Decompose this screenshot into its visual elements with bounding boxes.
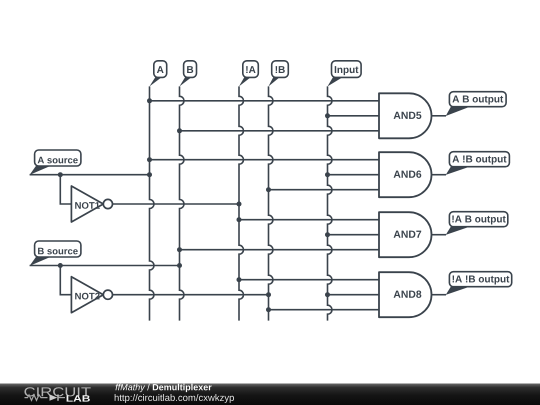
wire !B bus vertical [269,86,274,320]
wire A bus vertical [150,86,155,320]
node junction A/AND6 [147,157,152,162]
node junction !B/AND6 [266,187,271,192]
node junction B/AND5 [177,128,182,133]
node flag A source [30,150,81,175]
node junction !A/AND7 [237,217,242,222]
node junction B/B-source [177,263,182,268]
node junction NOT2 input tap [58,263,63,268]
wire Input to AND8 middle input [328,294,380,296]
logo diode symbol [50,394,66,400]
node junction B/AND7 [177,247,182,252]
node flag !B [269,61,289,87]
and-gate AND8 [379,272,432,317]
wire B bus vertical [180,86,185,320]
node junction !B/AND8 [266,307,271,312]
logo CIRCUIT text [24,387,90,396]
node junction NOT1 input tap [58,172,63,177]
node junction Input/AND6 [325,172,330,177]
wire !A bus vertical [239,86,244,320]
wire NOT1 input branch [60,175,71,204]
wire AND8 output [432,294,447,296]
wire AND6 output [432,174,447,176]
wire A source flag to A bus [30,174,150,176]
logo resistor symbol [25,395,48,401]
node flag A B output [446,92,506,116]
node flag A !B output [446,152,510,175]
wire !A to AND7 top input [239,219,379,221]
wire B to AND7 bottom input [180,249,380,251]
footer url text [115,394,234,403]
wire B source flag to B bus [30,265,180,267]
node flag !A [239,61,258,87]
logo LAB text [67,395,90,401]
footer title text [116,384,146,392]
wire NOT2 input branch [60,266,71,295]
node junction !A/NOT1 [237,202,242,207]
node junction !A/AND8 [237,277,242,282]
wire AND7 output [432,234,447,236]
node flag B [180,61,197,87]
wire Input to AND5 middle input [328,115,380,117]
wire NOT1 output to !A bus [113,203,239,205]
node junction Input/AND8 [325,292,330,297]
node junction Input/AND5 [325,113,330,118]
wire B to AND5 bottom input [180,130,380,132]
footer bar [0,384,540,405]
node junction A/A-source [147,172,152,177]
node junction A/AND5 [147,98,152,103]
node flag B source [30,241,81,266]
node junction Input/AND7 [325,232,330,237]
wire Input bus vertical [328,86,333,320]
node junction !B/NOT2 [266,292,271,297]
wire A to AND6 top input [150,159,380,161]
wire !B to AND6 bottom input [269,189,380,191]
wire !B to AND8 bottom input [269,309,380,311]
and-gate AND6 [379,152,432,197]
node flag !A B output [446,212,508,235]
wire Input to AND7 middle input [328,234,380,236]
node flag A [150,61,167,87]
wire !A to AND8 top input [239,279,379,281]
node flag Input [328,61,362,87]
and-gate AND7 [379,212,432,257]
wire AND5 output [432,115,447,117]
node flag !A !B output [446,272,512,295]
wire Input to AND6 middle input [328,174,380,176]
inverter NOT1 [71,186,112,222]
and-gate AND5 [379,93,432,138]
inverter NOT2 [71,277,112,313]
wire A to AND5 top input [150,100,380,102]
wire NOT2 output to !B bus [113,294,269,296]
